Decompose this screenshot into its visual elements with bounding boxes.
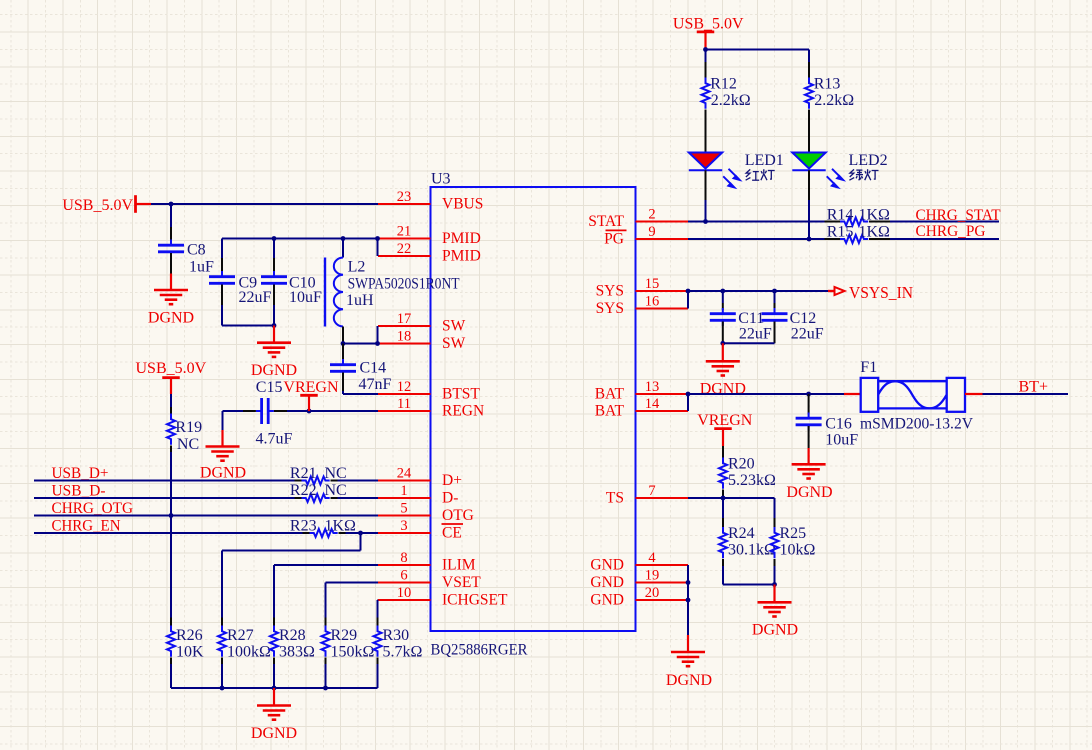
- node PMID at pin 21/22 corner: [375, 236, 380, 241]
- svg-text:10kΩ: 10kΩ: [780, 541, 816, 558]
- wire R25 bottom pin: [774, 559, 776, 585]
- node SYS at C11: [720, 289, 725, 294]
- wire LED top rail: [706, 49, 810, 51]
- U3 pin 6 VSET: [378, 567, 481, 591]
- resistor R22: [290, 482, 347, 502]
- wire R13-LED2 connector: [808, 110, 810, 153]
- label LED1: [745, 152, 784, 169]
- svg-text:USB_D+: USB_D+: [52, 465, 109, 482]
- power port USB_5.0V (R19): [136, 360, 207, 394]
- svg-text:REGN: REGN: [442, 403, 484, 420]
- wire fuse left pin: [844, 393, 861, 395]
- svg-text:C14: C14: [360, 359, 387, 376]
- svg-text:GND: GND: [590, 574, 624, 591]
- wire C9-C10 bottom rail: [222, 325, 274, 327]
- svg-text:BQ25886RGER: BQ25886RGER: [431, 642, 528, 659]
- svg-text:R27: R27: [227, 627, 254, 644]
- svg-text:2.2kΩ: 2.2kΩ: [814, 92, 854, 109]
- svg-text:SYS: SYS: [596, 300, 624, 317]
- svg-text:DGND: DGND: [251, 725, 297, 742]
- svg-text:DGND: DGND: [148, 310, 194, 327]
- wire USB_D- left segment: [34, 497, 295, 499]
- svg-text:12: 12: [397, 379, 412, 395]
- capacitor C15: [256, 379, 293, 447]
- resistor R28: [270, 626, 315, 661]
- wire R23 right pin: [339, 532, 379, 534]
- wire C10 top connector: [273, 239, 275, 276]
- svg-text:SW: SW: [442, 335, 466, 352]
- ground DGND under GND pins: [666, 635, 712, 689]
- port VSYS_IN arrow: [828, 283, 913, 302]
- node bottom rail at R25: [772, 582, 777, 587]
- node GND at pin 19: [686, 580, 691, 585]
- svg-text:R12: R12: [710, 75, 737, 92]
- ground DGND under R24/R25: [752, 585, 798, 639]
- svg-text:10: 10: [397, 585, 412, 601]
- net label CHRG_OTG: [52, 500, 134, 517]
- wire C10 bottom connector: [273, 285, 275, 326]
- svg-text:STAT: STAT: [588, 213, 624, 230]
- svg-text:R25: R25: [780, 525, 807, 542]
- svg-text:GND: GND: [590, 557, 624, 574]
- svg-text:R22: R22: [290, 482, 317, 499]
- wire R19 bottom connector: [170, 446, 172, 516]
- svg-text:SYS: SYS: [596, 283, 624, 300]
- svg-text:14: 14: [645, 396, 660, 412]
- wire R26 feed: [170, 516, 172, 626]
- wire corner to pin 22: [377, 239, 379, 257]
- svg-text:VREGN: VREGN: [697, 412, 753, 429]
- svg-text:ICHGSET: ICHGSET: [442, 592, 508, 609]
- svg-text:C15: C15: [256, 379, 283, 396]
- wire REGN net: [287, 410, 378, 412]
- wire R14 right pin: [869, 221, 890, 223]
- resistor R15: [827, 223, 890, 243]
- wire C9 top connector: [221, 239, 223, 276]
- svg-text:R30: R30: [383, 627, 410, 644]
- wire PG net: [688, 238, 825, 240]
- wire R22 right pin: [331, 497, 379, 499]
- capacitor C12: [762, 308, 824, 342]
- wire R20 top pin: [722, 446, 724, 458]
- U3 pin 23 VBUS: [378, 189, 483, 213]
- resistor R23: [290, 517, 356, 537]
- node SW at pin 17/18 corner: [375, 341, 380, 346]
- wire SYS rail: [688, 290, 828, 292]
- svg-text:NC: NC: [177, 436, 199, 453]
- svg-text:20: 20: [645, 585, 660, 601]
- svg-text:11: 11: [397, 396, 411, 412]
- svg-text:USB_D-: USB_D-: [52, 482, 106, 499]
- wire C15 left connector: [223, 411, 256, 430]
- wire R21 left pin: [295, 480, 302, 482]
- wire R20 bottom pin: [722, 490, 724, 499]
- resistor R13: [805, 75, 854, 109]
- svg-text:USB_5.0V: USB_5.0V: [62, 197, 133, 214]
- svg-text:DGND: DGND: [200, 464, 246, 481]
- capacitor C11: [710, 308, 772, 342]
- wire USB_D+ left segment: [34, 480, 295, 482]
- svg-text:BTST: BTST: [442, 386, 480, 403]
- svg-text:LED1: LED1: [745, 152, 784, 169]
- node TS junction: [721, 496, 726, 501]
- svg-text:R15: R15: [827, 223, 854, 240]
- U3 pin 17 SW: [378, 311, 466, 335]
- ground DGND under C11/C12: [700, 343, 746, 397]
- wire R27 feed: [222, 533, 361, 626]
- svg-text:1KΩ: 1KΩ: [859, 223, 891, 240]
- wire fuse right pin: [965, 393, 983, 395]
- wire R29 feed (VSET): [326, 583, 379, 626]
- svg-text:1uH: 1uH: [346, 292, 374, 309]
- svg-text:18: 18: [397, 328, 412, 344]
- capacitor C14: [330, 359, 392, 393]
- svg-text:NC: NC: [325, 465, 347, 482]
- wire LED1 bottom connector: [705, 170, 707, 221]
- wire R24 bottom connector: [722, 559, 724, 585]
- node REGN at VREGN: [307, 409, 312, 414]
- power port USB_5.0V (VBUS): [62, 195, 151, 214]
- svg-text:LED2: LED2: [849, 152, 888, 169]
- svg-text:VSET: VSET: [442, 574, 481, 591]
- wire R12 top connector: [705, 50, 707, 78]
- svg-text:USB_5.0V: USB_5.0V: [673, 16, 744, 33]
- svg-text:F1: F1: [860, 359, 877, 376]
- U3 pin 16 SYS: [596, 293, 688, 317]
- svg-text:PMID: PMID: [442, 248, 481, 265]
- U3 pin 11 REGN: [378, 396, 484, 420]
- svg-text:R13: R13: [814, 75, 841, 92]
- svg-text:150kΩ: 150kΩ: [331, 643, 375, 660]
- svg-text:1: 1: [400, 483, 407, 499]
- svg-text:DGND: DGND: [752, 621, 798, 638]
- wire LED2 bottom connector: [808, 170, 810, 239]
- svg-text:16: 16: [645, 293, 660, 309]
- svg-text:NC: NC: [325, 482, 347, 499]
- LED LED2 green: [792, 153, 825, 171]
- svg-text:SW: SW: [442, 318, 466, 335]
- wire C9 bottom connector: [221, 285, 223, 326]
- wire bottom rail: [171, 687, 378, 689]
- U3 pin 13 BAT: [595, 379, 688, 403]
- svg-text:22: 22: [397, 241, 412, 257]
- wire CHRG_STAT segment: [890, 221, 999, 223]
- wire R27 bottom pin: [221, 658, 223, 689]
- svg-text:3: 3: [400, 518, 407, 534]
- wire C11 bottom connector: [722, 322, 724, 344]
- node BAT at C16: [806, 392, 811, 397]
- node CE at R27 tap: [358, 531, 363, 536]
- wire corner to pin 17: [377, 326, 379, 344]
- svg-text:DGND: DGND: [666, 672, 712, 689]
- svg-text:GND: GND: [590, 592, 624, 609]
- node CHRG_OTG at R19/R26: [169, 513, 174, 518]
- U3 pin 24 D+: [378, 465, 462, 489]
- resistor R21: [290, 465, 347, 485]
- node bottom rail at C10: [272, 323, 277, 328]
- svg-text:5: 5: [400, 500, 407, 516]
- svg-text:10K: 10K: [176, 643, 204, 660]
- svg-text:22uF: 22uF: [739, 325, 772, 342]
- svg-text:1uF: 1uF: [189, 259, 214, 276]
- wire CHRG_EN left segment: [34, 532, 303, 534]
- net label CHRG_STAT: [916, 207, 1001, 224]
- wire C16 bottom connector: [808, 426, 810, 448]
- svg-text:4.7uF: 4.7uF: [256, 430, 293, 447]
- LED1 emission arrows: [723, 169, 739, 188]
- wire R29 bottom pin: [325, 658, 327, 689]
- net label USB_D-: [52, 482, 106, 499]
- svg-text:10uF: 10uF: [289, 289, 322, 306]
- wire TS divider bottom rail: [723, 584, 775, 586]
- node BAT junction: [686, 392, 691, 397]
- capacitor C10: [261, 271, 322, 306]
- U3 pin 19 GND: [590, 567, 688, 591]
- svg-text:9: 9: [648, 224, 655, 240]
- svg-text:SWPA5020S1R0NT: SWPA5020S1R0NT: [348, 275, 460, 292]
- wire BTST net: [343, 393, 378, 395]
- node GND at pin 20: [686, 598, 691, 603]
- U3 pin 18 SW: [378, 328, 466, 352]
- svg-text:4: 4: [648, 550, 656, 566]
- label LED2: [849, 152, 888, 169]
- svg-text:L2: L2: [348, 259, 366, 276]
- svg-text:ILIM: ILIM: [442, 557, 476, 574]
- label LED1 红灯 (red lamp): [746, 169, 775, 180]
- node rail at R27: [220, 686, 225, 691]
- svg-text:15: 15: [645, 276, 660, 292]
- U3 pin 5 OTG: [378, 500, 474, 524]
- wire BAT rail: [688, 393, 844, 395]
- net label CHRG_PG: [916, 223, 986, 240]
- wire R14 left pin: [825, 221, 841, 223]
- svg-text:BAT: BAT: [595, 386, 625, 403]
- svg-text:U3: U3: [431, 171, 451, 188]
- svg-text:VSYS_IN: VSYS_IN: [849, 283, 913, 302]
- resistor R30: [374, 626, 423, 661]
- svg-text:10uF: 10uF: [825, 431, 858, 448]
- svg-text:1KΩ: 1KΩ: [325, 517, 357, 534]
- wire C12 top connector: [774, 291, 776, 310]
- U3 pin 4 GND: [590, 550, 688, 574]
- svg-text:OTG: OTG: [442, 507, 474, 524]
- node SYS junction: [686, 289, 691, 294]
- node LED rail junction: [703, 47, 708, 52]
- wire R22 left pin: [295, 497, 302, 499]
- svg-text:6: 6: [400, 567, 407, 583]
- wire R15 right pin: [869, 238, 890, 240]
- wire R15 left pin: [825, 238, 841, 240]
- wire R19 top connector: [170, 394, 172, 414]
- ground DGND under C9/C10: [251, 326, 297, 380]
- U3 pin 3 CE: [378, 518, 463, 542]
- U3 pin 21 PMID: [378, 223, 481, 247]
- resistor R20: [719, 456, 776, 489]
- svg-text:D-: D-: [442, 490, 458, 507]
- svg-text:22uF: 22uF: [239, 289, 272, 306]
- capacitor C16: [796, 413, 859, 449]
- U3 pin 8 ILIM: [378, 550, 476, 574]
- svg-text:7: 7: [648, 483, 655, 499]
- svg-text:21: 21: [397, 223, 412, 239]
- ground DGND under C16: [786, 448, 832, 501]
- svg-text:17: 17: [397, 311, 412, 327]
- svg-text:PG: PG: [604, 231, 624, 248]
- node PMID at C10: [272, 236, 277, 241]
- wire PMID rail: [222, 238, 378, 240]
- node VBUS junction at C8: [169, 202, 174, 207]
- U3 pin 10 ICHGSET: [378, 585, 508, 609]
- wire TS net: [688, 497, 723, 499]
- resistor R25: [771, 525, 816, 559]
- resistor R29: [322, 626, 375, 661]
- wire SYS pin16 riser: [687, 291, 689, 309]
- wire VBUS net: [151, 203, 378, 205]
- wire CHRG_OTG: [34, 515, 378, 517]
- U3 pin 15 SYS: [596, 276, 688, 300]
- wire C15 right connector: [274, 410, 287, 412]
- wire R13 top connector: [808, 50, 810, 78]
- U3 pin 22 PMID: [378, 241, 481, 265]
- svg-text:BAT: BAT: [595, 403, 625, 420]
- resistor R24: [719, 525, 776, 559]
- LED2 emission arrows: [827, 169, 843, 188]
- svg-text:R20: R20: [728, 456, 755, 473]
- wire STAT net: [688, 221, 825, 223]
- wire R12-LED1 connector: [705, 110, 707, 153]
- svg-text:5.23kΩ: 5.23kΩ: [728, 472, 776, 489]
- svg-text:19: 19: [645, 567, 660, 583]
- wire SW rail: [343, 343, 378, 345]
- wire L2 top connector: [342, 239, 344, 258]
- resistor R26: [167, 626, 204, 661]
- svg-text:22uF: 22uF: [791, 325, 824, 342]
- U3 pin 2 STAT: [588, 206, 688, 230]
- U3 pin 9 PG: [604, 224, 688, 248]
- svg-text:8: 8: [400, 550, 407, 566]
- svg-text:R26: R26: [176, 627, 203, 644]
- wire R21 right pin: [331, 480, 379, 482]
- svg-text:DGND: DGND: [251, 362, 297, 379]
- svg-text:100kΩ: 100kΩ: [227, 643, 271, 660]
- resistor R14: [827, 206, 890, 225]
- svg-text:USB_5.0V: USB_5.0V: [136, 360, 207, 377]
- svg-text:C8: C8: [187, 241, 206, 258]
- svg-text:CHRG_OTG: CHRG_OTG: [52, 500, 134, 517]
- wire C12 bottom connector: [774, 322, 776, 344]
- power port VREGN (R20): [697, 412, 753, 446]
- wire R30 feed (ICHGSET): [377, 600, 380, 626]
- svg-text:VBUS: VBUS: [442, 196, 483, 213]
- power port VREGN (REGN): [283, 379, 339, 411]
- U3 pin 1 D-: [378, 483, 458, 507]
- wire R28 bottom pin: [273, 658, 275, 689]
- svg-text:BT+: BT+: [1019, 378, 1048, 395]
- node PMID at L2: [341, 236, 346, 241]
- svg-text:47nF: 47nF: [359, 376, 392, 393]
- node SYS at C12: [772, 289, 777, 294]
- wire R26 bottom pin: [170, 658, 172, 689]
- wire C11 top connector: [722, 291, 724, 310]
- node rail at R29: [323, 686, 328, 691]
- node STAT at LED1: [703, 219, 708, 224]
- fuse F1: [860, 359, 973, 433]
- wire C8 bottom connector: [170, 253, 172, 274]
- svg-text:383Ω: 383Ω: [279, 643, 315, 660]
- svg-text:R28: R28: [279, 627, 306, 644]
- wire CHRG_PG segment: [890, 238, 999, 240]
- node bottom rail at C11: [720, 341, 725, 346]
- U3 pin 12 BTST: [378, 379, 480, 403]
- wire C11-C12 bottom rail: [723, 342, 775, 344]
- svg-text:R23: R23: [290, 517, 317, 534]
- wire C8 top connector: [170, 204, 172, 244]
- wire R23 left pin: [303, 532, 310, 534]
- svg-text:2: 2: [648, 206, 655, 222]
- wire C14 top connector: [342, 344, 344, 364]
- label LED2 绿灯 (green lamp): [849, 169, 878, 180]
- svg-text:DGND: DGND: [700, 381, 746, 398]
- op-amp U3 BQ25886RGER IC body: [431, 171, 636, 659]
- LED LED1 red: [689, 153, 722, 171]
- ground DGND under C8: [148, 274, 194, 327]
- wire L2 bottom connector: [342, 327, 344, 344]
- U3 pin 7 TS: [606, 483, 688, 507]
- node SW at L2: [341, 341, 346, 346]
- resistor R12: [702, 75, 751, 109]
- wire GND pins riser: [687, 565, 689, 635]
- svg-text:R29: R29: [331, 627, 358, 644]
- svg-text:5.7kΩ: 5.7kΩ: [383, 643, 423, 660]
- svg-text:23: 23: [397, 189, 412, 205]
- svg-text:CHRG_EN: CHRG_EN: [52, 517, 121, 534]
- svg-text:13: 13: [645, 379, 660, 395]
- svg-text:R19: R19: [175, 419, 202, 436]
- svg-text:D+: D+: [442, 472, 462, 489]
- node rail at R28: [272, 686, 277, 691]
- power port USB_5.0V (LEDs): [673, 16, 744, 48]
- net label BT+: [1019, 378, 1048, 395]
- U3 pin 14 BAT: [595, 396, 688, 420]
- svg-text:PMID: PMID: [442, 230, 481, 247]
- capacitor C9: [209, 271, 272, 306]
- resistor R27: [218, 626, 271, 661]
- svg-text:R24: R24: [728, 525, 755, 542]
- svg-text:DGND: DGND: [786, 484, 832, 501]
- svg-text:CE: CE: [442, 525, 462, 542]
- capacitor C8: [158, 240, 214, 276]
- svg-text:2.2kΩ: 2.2kΩ: [711, 92, 751, 109]
- resistor R19: [167, 414, 202, 453]
- ground DGND under C15: [200, 430, 246, 481]
- node PG at LED2: [807, 237, 812, 242]
- svg-text:TS: TS: [606, 490, 624, 507]
- wire R25 top pin: [774, 518, 776, 527]
- svg-text:R14: R14: [827, 206, 854, 223]
- svg-text:CHRG_STAT: CHRG_STAT: [916, 207, 1001, 224]
- wire BAT pin14 riser: [687, 394, 689, 411]
- net label CHRG_EN: [52, 517, 121, 534]
- svg-text:mSMD200-13.2V: mSMD200-13.2V: [860, 415, 973, 432]
- svg-text:30.1kΩ: 30.1kΩ: [728, 541, 776, 558]
- wire R30 bottom pin: [377, 658, 379, 689]
- net label USB_D+: [52, 465, 109, 482]
- svg-text:VREGN: VREGN: [283, 379, 339, 396]
- svg-text:CHRG_PG: CHRG_PG: [916, 223, 986, 240]
- ground DGND under resistor bank: [251, 688, 297, 742]
- svg-text:R21: R21: [290, 465, 317, 482]
- wire TS to R25: [723, 498, 775, 518]
